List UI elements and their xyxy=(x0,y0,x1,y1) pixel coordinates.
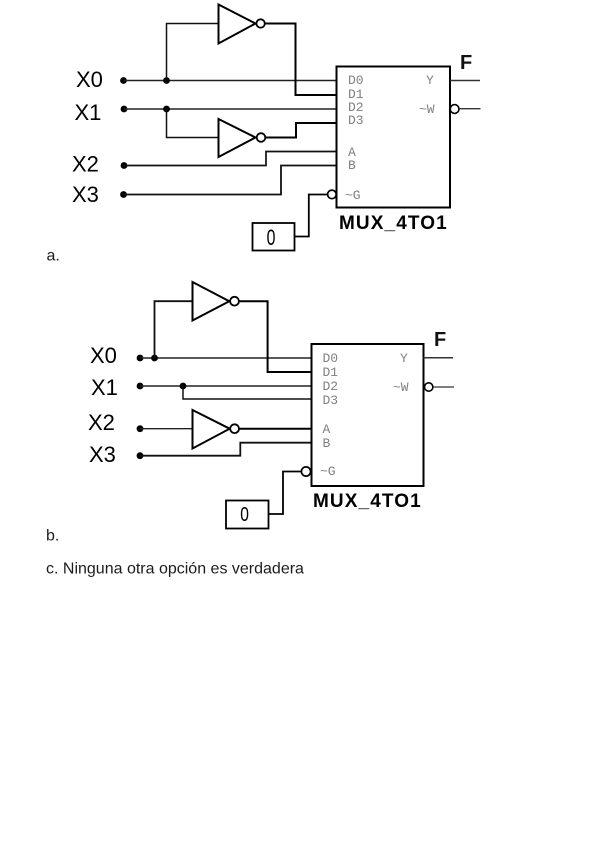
svg-text:D0: D0 xyxy=(323,351,339,366)
wire X0 to D0 (b) xyxy=(140,357,312,359)
wire X0 junction to inverter U4 input xyxy=(155,301,193,358)
wire X1 junction to D3 (b) xyxy=(183,386,312,399)
inverter U5 triangle xyxy=(193,410,230,449)
wire U1 output to D1 xyxy=(265,24,337,96)
svg-text:MUX_4TO1: MUX_4TO1 xyxy=(339,213,448,234)
svg-text:Y: Y xyxy=(400,351,408,366)
node X2 terminal dot (b) xyxy=(137,425,144,432)
node X1 terminal dot (b) xyxy=(137,383,144,390)
wire U4 output to D1 (b) xyxy=(239,301,312,372)
output ~W wire (circuit b) xyxy=(433,386,454,388)
wire X1 to D2 xyxy=(124,108,337,110)
svg-text:c. Ninguna otra opción es verd: c. Ninguna otra opción es verdadera xyxy=(46,561,304,578)
wire X0 to D0 xyxy=(124,80,337,82)
wire 0 box to ~G (b) xyxy=(269,472,302,515)
svg-text:X2: X2 xyxy=(72,152,99,177)
node X0 terminal dot xyxy=(120,77,127,84)
svg-text:D3: D3 xyxy=(323,393,339,408)
svg-text:a.: a. xyxy=(47,248,60,265)
~W bubble (circuit a) xyxy=(450,105,459,114)
inverter U1 triangle xyxy=(219,5,256,44)
svg-text:0: 0 xyxy=(240,503,249,525)
node X2 terminal dot xyxy=(121,162,128,169)
output Y wire (circuit a) xyxy=(450,80,480,82)
output ~W wire (circuit a) xyxy=(459,108,481,110)
svg-text:MUX_4TO1: MUX_4TO1 xyxy=(313,491,422,512)
MUX U3 box xyxy=(337,67,451,208)
svg-text:X3: X3 xyxy=(72,182,99,207)
junction on X0 (b) xyxy=(151,355,158,362)
wire X1 to D2 (b) xyxy=(140,385,312,387)
~G bubble (circuit b) xyxy=(301,467,310,476)
svg-text:F: F xyxy=(434,329,446,351)
wire U5 output to A (b) xyxy=(239,428,312,430)
~G bubble (circuit a) xyxy=(328,190,337,199)
svg-text:~W: ~W xyxy=(393,380,409,395)
wire 0 box to ~G xyxy=(295,195,328,237)
node X3 terminal dot xyxy=(120,191,127,198)
junction on X0 xyxy=(163,77,170,84)
wire X2 to A xyxy=(124,152,337,166)
inverter U2 triangle xyxy=(219,119,256,157)
wire X3 to B xyxy=(124,166,337,195)
wire X1 junction to inverter U2 input xyxy=(167,109,220,138)
wire X3 to B (b) xyxy=(140,443,312,456)
MUX U6 box xyxy=(312,344,424,486)
svg-text:~G: ~G xyxy=(320,464,336,479)
constant 0 source box (circuit a) xyxy=(253,223,295,251)
inverter U2 bubble xyxy=(257,133,266,142)
svg-text:0: 0 xyxy=(267,227,276,251)
output Y wire (circuit b) xyxy=(424,357,454,359)
node X1 terminal dot xyxy=(121,106,128,113)
wire X2 to inverter U5 input xyxy=(140,428,193,430)
svg-text:B: B xyxy=(323,436,331,451)
svg-text:A: A xyxy=(323,422,331,437)
inverter U5 bubble xyxy=(230,424,239,433)
constant 0 source box (circuit b) xyxy=(226,501,269,529)
wire X0 junction to inverter U1 input xyxy=(167,24,220,81)
svg-text:D2: D2 xyxy=(323,379,339,394)
node X3 terminal dot (b) xyxy=(137,452,144,459)
~W bubble (circuit b) xyxy=(425,383,433,391)
svg-text:X0: X0 xyxy=(90,343,117,368)
node X0 terminal dot (b) xyxy=(137,355,144,362)
wire U2 output to D3 xyxy=(265,123,337,138)
svg-text:F: F xyxy=(460,52,472,74)
inverter U4 bubble xyxy=(230,297,239,306)
svg-text:~G: ~G xyxy=(345,188,361,203)
svg-text:D0: D0 xyxy=(348,73,364,88)
junction on X1 xyxy=(163,106,170,113)
svg-text:X3: X3 xyxy=(89,442,116,467)
svg-text:D1: D1 xyxy=(323,365,339,380)
svg-text:X0: X0 xyxy=(76,67,103,92)
svg-text:Y: Y xyxy=(426,73,434,88)
inverter U4 triangle xyxy=(193,282,230,321)
svg-text:D3: D3 xyxy=(348,113,364,128)
inverter U1 bubble xyxy=(256,19,264,27)
svg-text:B: B xyxy=(348,158,356,173)
svg-text:~W: ~W xyxy=(419,102,435,117)
svg-text:X2: X2 xyxy=(88,410,115,435)
svg-text:X1: X1 xyxy=(75,100,102,125)
svg-text:X1: X1 xyxy=(91,375,118,400)
svg-text:b.: b. xyxy=(46,528,59,545)
junction on X1 (b) xyxy=(180,383,187,390)
